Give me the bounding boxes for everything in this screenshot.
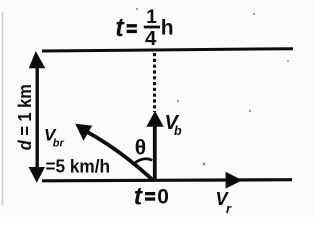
svg-text:br: br (53, 138, 65, 150)
svg-text:=5 km/h: =5 km/h (46, 156, 111, 177)
svg-text:0: 0 (157, 185, 169, 208)
svg-text:b: b (174, 124, 182, 138)
svg-text:h: h (161, 17, 174, 40)
svg-text:d = 1 km: d = 1 km (15, 84, 35, 150)
svg-text:θ: θ (135, 136, 146, 159)
svg-text:t: t (115, 14, 125, 42)
svg-text:4: 4 (145, 27, 157, 50)
svg-text:1: 1 (146, 7, 157, 28)
